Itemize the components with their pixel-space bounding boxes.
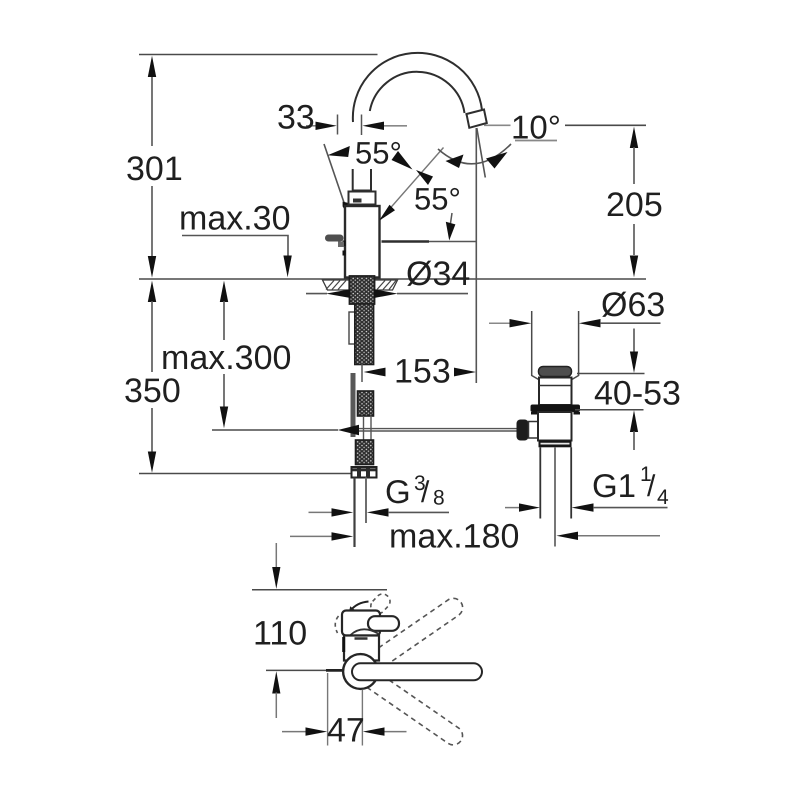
plan dashed lever stub xyxy=(368,591,393,616)
plan dashed spout capsule upper xyxy=(349,595,467,684)
55 deg tilted lever line P xyxy=(379,148,444,222)
threaded shank 2 xyxy=(358,391,374,416)
dim 301 top extent line xyxy=(139,54,378,56)
threaded shank 1 xyxy=(355,304,374,365)
dim 47 extension line left xyxy=(327,673,329,746)
dim max.180 arrow right-pointing xyxy=(332,532,354,540)
svg-text:max.180: max.180 xyxy=(389,518,519,556)
dim 205 arrow down xyxy=(630,256,638,278)
handle reference horizontal line xyxy=(382,240,430,243)
dim G3/8 left tail xyxy=(309,511,333,513)
drain lower body xyxy=(538,412,572,441)
dim 153 arrow left-pointing xyxy=(364,368,386,377)
pop-up rod xyxy=(554,447,556,546)
dim max.30 leader underline xyxy=(182,236,288,257)
dim Ø63 left tail xyxy=(489,322,510,324)
dim 33 arrow right-pointing xyxy=(316,122,337,130)
svg-text:max.30: max.30 xyxy=(179,200,291,238)
dim 301 arrow up xyxy=(148,56,156,77)
10 deg reference line right / 205 top extent xyxy=(565,124,646,126)
nut top band xyxy=(353,468,376,471)
plan body lower xyxy=(344,636,379,661)
svg-text:110: 110 xyxy=(253,615,307,653)
dim G3/8 leader line xyxy=(388,511,449,513)
spout inner arc xyxy=(370,72,465,113)
drain seat seam xyxy=(539,385,572,387)
coupling inner white line xyxy=(541,443,570,445)
plan dashed arc left xyxy=(335,616,338,633)
plan solid spout capsule xyxy=(361,662,474,681)
10 deg reference line left xyxy=(484,124,511,126)
drain Ø63 extension line right xyxy=(578,311,580,376)
linkage clevis xyxy=(529,422,539,439)
dim 110 top extent line xyxy=(252,589,387,591)
hose lower right line xyxy=(365,478,367,524)
dim 350 arrow up xyxy=(148,281,156,302)
dim 153 center tick xyxy=(361,364,363,383)
svg-text:55°: 55° xyxy=(355,136,402,171)
svg-text:Ø63: Ø63 xyxy=(601,286,665,324)
tailpipe walls xyxy=(540,447,571,518)
svg-text:205: 205 xyxy=(606,186,663,224)
side lever lower shade xyxy=(338,242,344,248)
55 deg lower label arrowhead xyxy=(416,170,433,185)
10 deg arc left arrowhead xyxy=(446,155,464,169)
shank block at counter xyxy=(350,276,375,304)
dim max.300 arrow up xyxy=(220,281,228,302)
dim G1 1/4 left tail xyxy=(505,507,520,509)
svg-text:40-53: 40-53 xyxy=(594,375,681,413)
shank pipe lines xyxy=(364,416,372,441)
dim 110 arrow down xyxy=(272,567,280,589)
dim 40-53 upper line xyxy=(633,329,635,353)
svg-text:47: 47 xyxy=(327,712,365,750)
dim max.180 arrow left-pointing xyxy=(556,532,578,540)
dim 33 left tail line xyxy=(306,125,316,127)
bottom extent dark segment xyxy=(326,669,344,672)
dim 47 right tail xyxy=(385,731,407,733)
svg-text:4: 4 xyxy=(657,486,669,509)
plan lever top arc xyxy=(351,629,379,635)
dim 40-53 lower line xyxy=(633,431,635,450)
drain flange black bar xyxy=(531,405,581,413)
side lever capsule xyxy=(325,235,344,242)
dim 350 vertical line xyxy=(151,301,153,452)
dim max.300 vertical line xyxy=(223,301,225,407)
body edge tick 1 xyxy=(343,241,346,247)
dim max.300 arrow down xyxy=(220,407,228,429)
body edge tick 2 xyxy=(343,251,346,256)
lever upright stick xyxy=(353,169,371,191)
dim 350 bottom extent line xyxy=(139,473,351,475)
pivot ball circle xyxy=(539,424,552,437)
drain upper cylinder xyxy=(539,378,572,406)
countertop line xyxy=(139,278,646,280)
55 deg upper label arrowhead xyxy=(392,151,413,170)
plan body left dark edge xyxy=(342,637,345,652)
dim 205 arrow up xyxy=(630,127,638,148)
line P lower arrowhead xyxy=(379,205,395,221)
escutcheon left hatched xyxy=(323,280,350,290)
dim max.180 right tail xyxy=(578,535,660,537)
dim 47 arrow left-pointing xyxy=(363,727,385,735)
dim 33 tick left xyxy=(337,115,339,135)
svg-text:/: / xyxy=(421,476,430,509)
Ø34 arrow left-pointing xyxy=(326,289,351,298)
faucet body xyxy=(345,206,380,278)
plan spout bearing circle xyxy=(343,654,378,689)
svg-text:Ø34: Ø34 xyxy=(406,255,470,293)
10 deg second reference line xyxy=(515,140,557,142)
dim 40-53 bottom extent line xyxy=(575,409,644,411)
dim max.30 arrow down xyxy=(283,256,291,278)
dim G1 1/4 arrow left-pointing xyxy=(572,503,594,511)
55 deg lower arrow down A4 xyxy=(446,222,456,241)
escutcheon left hatch lines xyxy=(326,281,346,290)
spout outlet box xyxy=(467,110,487,128)
pop-up plug dome xyxy=(539,367,572,377)
10 deg arc right arrowhead xyxy=(486,152,508,169)
svg-text:350: 350 xyxy=(124,372,181,410)
dim 110 arrow up xyxy=(272,671,280,693)
lever base block xyxy=(349,192,376,205)
dim 47 extension line right xyxy=(361,690,363,746)
flange tabs xyxy=(531,412,538,415)
55 deg lower wedge W1 xyxy=(343,202,350,211)
svg-text:/: / xyxy=(647,470,656,503)
55 deg arc arrowhead A1 xyxy=(328,146,350,157)
spout outer arc xyxy=(353,53,482,122)
plan rotation arrow xyxy=(351,602,369,611)
dim max.180 left tail xyxy=(290,535,332,537)
plan body tick xyxy=(355,637,368,640)
svg-text:G: G xyxy=(385,473,411,510)
hose lower left line xyxy=(353,478,355,548)
svg-text:153: 153 xyxy=(394,353,451,391)
stream 10 deg tilted line xyxy=(477,128,486,178)
dim 205 vertical line xyxy=(633,147,635,255)
linkage left arrow xyxy=(338,425,359,435)
Ø34 arrow right-pointing xyxy=(374,289,398,298)
dim 40-53 arrow up xyxy=(630,410,638,432)
mounting stud xyxy=(349,312,355,344)
dim 33 tick right xyxy=(361,115,363,136)
dim 33 arrow left-pointing xyxy=(362,122,384,130)
dim 110 bottom extent line xyxy=(266,669,326,671)
Ø34 leader line xyxy=(306,293,468,295)
G3/8 connection nut xyxy=(352,467,377,478)
dim 40-53 top extent line xyxy=(577,373,645,375)
drain funnel slopes xyxy=(532,376,579,381)
svg-text:301: 301 xyxy=(126,150,183,188)
dim G3/8 arrow right-pointing xyxy=(332,508,354,516)
dim 47 left tail xyxy=(282,731,306,733)
dim Ø63 arrow right-pointing xyxy=(510,319,532,327)
spout outlet joint tick xyxy=(466,110,484,115)
dim 110 upper line xyxy=(275,543,277,567)
water stream vertical line xyxy=(475,128,477,383)
handle reference line thin part xyxy=(429,241,476,243)
10 deg annotation arc xyxy=(438,144,511,164)
drain coupling nut xyxy=(539,441,572,448)
dim 153 arrow right-pointing xyxy=(454,368,476,377)
lever base inner mark xyxy=(353,199,362,203)
dim 301 vertical line xyxy=(151,76,153,257)
svg-text:G1: G1 xyxy=(592,467,636,504)
svg-text:33: 33 xyxy=(277,99,315,137)
plan lever stub solid xyxy=(368,616,399,631)
dim G1 1/4 arrow right-pointing xyxy=(519,503,540,511)
dim 33 right tail line xyxy=(384,125,407,127)
escutcheon right hatched xyxy=(375,280,398,290)
svg-text:10°: 10° xyxy=(511,109,561,146)
linkage knob xyxy=(517,420,529,441)
threaded shank 3 xyxy=(356,440,374,465)
dim 301 arrow down xyxy=(148,256,156,278)
dim G1 1/4 leader line xyxy=(593,507,668,509)
drain Ø63 extension line left xyxy=(531,311,533,376)
55 deg lower leader stem xyxy=(450,213,452,228)
supply hose upper thick xyxy=(351,373,356,437)
nut divider bars xyxy=(357,468,361,477)
dim Ø63 arrow left-pointing xyxy=(579,319,601,327)
plan body upper xyxy=(342,611,380,636)
dim 47 arrow right-pointing xyxy=(306,727,328,735)
lever raised position left line xyxy=(324,144,345,204)
dim 40-53 arrow down xyxy=(630,352,638,374)
dim 350 arrow down xyxy=(148,452,156,473)
dim 110 lower line xyxy=(275,693,277,719)
dim G3/8 arrow left-pointing xyxy=(367,508,389,516)
svg-text:max.300: max.300 xyxy=(161,339,291,377)
svg-text:55°: 55° xyxy=(414,182,461,217)
pop-up linkage left line / max300 extent xyxy=(212,429,338,431)
svg-text:8: 8 xyxy=(433,487,445,510)
escutcheon right hatch lines xyxy=(377,281,396,290)
plan dashed spout capsule lower xyxy=(349,659,467,748)
linkage double rod lines xyxy=(359,429,517,431)
dim Ø63 leader line xyxy=(600,322,661,324)
